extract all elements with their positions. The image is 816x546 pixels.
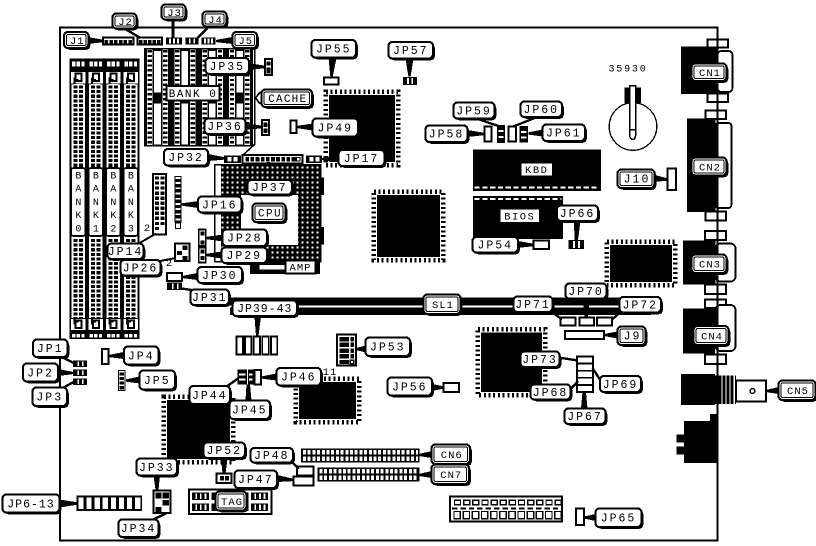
label JP32 bbox=[166, 151, 210, 168]
jumper JP28 bbox=[199, 230, 206, 247]
svg-text:JP34: JP34 bbox=[121, 523, 157, 536]
label J5 bbox=[234, 34, 258, 50]
jumper JP65 bbox=[576, 509, 584, 526]
chip U1 bbox=[326, 92, 398, 165]
svg-text:JP29: JP29 bbox=[226, 250, 262, 263]
label CN5 bbox=[780, 382, 816, 402]
svg-text:JP56: JP56 bbox=[392, 381, 428, 394]
label JP65 bbox=[597, 510, 643, 529]
pointer JP49 bbox=[297, 124, 313, 131]
svg-text:K: K bbox=[75, 211, 81, 222]
label J10 bbox=[619, 171, 656, 190]
pointer JP69 bbox=[593, 368, 602, 382]
label JP46 bbox=[278, 370, 323, 388]
pointer J4 bbox=[198, 27, 210, 39]
svg-text:JP68: JP68 bbox=[533, 387, 569, 400]
pointer JP46 bbox=[262, 374, 277, 381]
pointer JP44 bbox=[226, 379, 238, 388]
svg-text:BANK 0: BANK 0 bbox=[169, 89, 218, 101]
svg-text:JP70: JP70 bbox=[568, 286, 604, 299]
pointer JP16 bbox=[182, 201, 199, 208]
svg-text:JP65: JP65 bbox=[601, 513, 637, 526]
label J1 bbox=[66, 34, 91, 50]
capacitors JP39-43 bbox=[237, 337, 243, 355]
label J3 bbox=[163, 6, 187, 21]
pointer JP5 bbox=[126, 377, 140, 384]
label JP73 bbox=[522, 353, 561, 369]
label JP56 bbox=[389, 379, 434, 397]
CPU PGA socket bbox=[215, 165, 321, 262]
label JP5 bbox=[141, 372, 177, 391]
header J2 pins bbox=[138, 38, 163, 45]
jumper JP61 target bbox=[520, 126, 529, 143]
svg-text:J5: J5 bbox=[238, 36, 253, 48]
label BIOS bbox=[501, 210, 542, 225]
connector CN5 bbox=[681, 374, 715, 405]
jumper JP52 bbox=[217, 474, 232, 484]
svg-text:AMP: AMP bbox=[290, 263, 312, 275]
svg-text:J2: J2 bbox=[118, 17, 133, 29]
pointer JP1 bbox=[59, 356, 74, 364]
svg-text:JP36: JP36 bbox=[207, 121, 243, 134]
jumper JP47 target bbox=[294, 477, 314, 486]
pointer JP60 bbox=[513, 118, 540, 128]
pointer JP52 bbox=[221, 459, 228, 474]
svg-text:CN4: CN4 bbox=[701, 331, 723, 343]
jumper block JP33/34 bbox=[154, 491, 171, 514]
label CN6 bbox=[433, 446, 472, 466]
connector CN3 bbox=[705, 231, 726, 240]
label CN4 bbox=[695, 328, 730, 347]
header JP32 target bbox=[224, 156, 241, 164]
jumpers JP6-13 bbox=[78, 497, 85, 511]
SIMM socket BANK 3 bbox=[123, 60, 139, 339]
label JP31 bbox=[192, 291, 231, 307]
label JP67 bbox=[566, 410, 607, 426]
svg-text:A: A bbox=[110, 185, 116, 196]
DRAM DIP array bank 0 bbox=[144, 48, 253, 147]
svg-text:JP73: JP73 bbox=[522, 354, 558, 367]
svg-text:N: N bbox=[110, 198, 116, 209]
label JP3 bbox=[34, 389, 69, 408]
svg-text:K: K bbox=[128, 211, 134, 222]
pointer JP30 bbox=[183, 273, 198, 280]
pointer CN6 bbox=[420, 451, 432, 458]
pointer JP32 bbox=[208, 154, 225, 161]
pointer JP68 bbox=[570, 381, 579, 391]
motherboard outline bbox=[60, 28, 718, 541]
jumper strip JP16 bbox=[175, 176, 182, 223]
label JP16 bbox=[200, 198, 244, 214]
label TAG bbox=[217, 493, 248, 512]
svg-text:JP44: JP44 bbox=[192, 390, 228, 403]
pointer JP28 bbox=[206, 235, 223, 242]
jumper JP4 bbox=[102, 349, 109, 364]
jumper JP49 bbox=[291, 121, 297, 134]
svg-text:JP69: JP69 bbox=[603, 379, 639, 392]
svg-text:KBD: KBD bbox=[525, 165, 548, 177]
power connector bbox=[450, 497, 562, 522]
pointer JP48 bbox=[290, 460, 299, 470]
svg-text:JP2: JP2 bbox=[27, 367, 54, 380]
pointer JP2 bbox=[58, 369, 73, 376]
svg-text:JP16: JP16 bbox=[202, 199, 238, 212]
jumper block JP26 bbox=[175, 244, 190, 262]
chip U6 bbox=[296, 379, 359, 422]
pointer JP4 bbox=[109, 352, 124, 359]
label JP4 bbox=[126, 348, 161, 366]
svg-text:JP53: JP53 bbox=[370, 342, 406, 355]
label JP71 bbox=[515, 298, 554, 314]
brace for CACHE bbox=[255, 92, 262, 103]
jumper JP60 target bbox=[509, 127, 517, 142]
pointer JP65 bbox=[585, 514, 596, 521]
jumper JP31 bbox=[167, 283, 182, 291]
label JP59 bbox=[455, 104, 496, 120]
connector CN1 bbox=[708, 40, 729, 48]
pointer J2 bbox=[124, 28, 141, 38]
jumper JP56 bbox=[444, 383, 460, 392]
svg-text:N: N bbox=[93, 198, 99, 209]
svg-text:CN7: CN7 bbox=[440, 470, 462, 482]
pointer J10 bbox=[654, 175, 668, 182]
svg-text:JP37: JP37 bbox=[252, 182, 288, 195]
svg-text:JP60: JP60 bbox=[523, 104, 559, 117]
header strip row bbox=[243, 155, 303, 164]
pointer J3 bbox=[172, 19, 175, 38]
svg-text:CN3: CN3 bbox=[699, 260, 721, 272]
SIMM socket BANK 1 bbox=[88, 60, 104, 339]
label JP34 bbox=[120, 521, 160, 539]
jumper block JP44-46 bbox=[238, 370, 248, 385]
label JP69 bbox=[602, 378, 643, 394]
pointer JP47 bbox=[277, 475, 294, 482]
chip U4 bbox=[478, 329, 545, 395]
label JP70 bbox=[567, 285, 608, 300]
label CN7 bbox=[433, 466, 471, 486]
svg-text:JP55: JP55 bbox=[316, 44, 352, 57]
header J3 pins bbox=[166, 38, 182, 45]
svg-text:35930: 35930 bbox=[608, 65, 647, 76]
jumper J10 target bbox=[668, 169, 677, 191]
label CN3 bbox=[693, 256, 728, 275]
jumper JP48 target bbox=[297, 467, 314, 476]
jumper JP36 bbox=[262, 120, 269, 135]
pointer JP29 bbox=[206, 252, 222, 259]
header J1 pins bbox=[103, 38, 134, 45]
svg-text:3: 3 bbox=[128, 224, 134, 235]
label SL1 bbox=[425, 296, 462, 316]
pointer JP53 bbox=[357, 346, 367, 353]
jumper JP5 bbox=[119, 371, 126, 391]
label JP61 bbox=[544, 126, 587, 143]
pointer JP35 bbox=[248, 63, 266, 70]
label JP53 bbox=[367, 339, 412, 358]
label KBD bbox=[522, 164, 555, 178]
svg-text:A: A bbox=[75, 185, 81, 196]
svg-text:JP5: JP5 bbox=[144, 375, 171, 388]
connector CN2 bbox=[706, 111, 727, 120]
jumper stack JP67-69/73 bbox=[577, 357, 593, 364]
svg-text:JP6-13: JP6-13 bbox=[7, 498, 54, 511]
svg-text:N: N bbox=[128, 198, 134, 209]
svg-text:CPU: CPU bbox=[258, 209, 282, 221]
jumper JP29 bbox=[199, 248, 206, 263]
jumper JP54 bbox=[534, 241, 550, 250]
label JP57 bbox=[390, 44, 435, 61]
slot SL1 bbox=[230, 298, 651, 306]
pointer JP71 to jumper bbox=[550, 311, 562, 320]
pointer JP45 bbox=[246, 385, 252, 401]
svg-text:JP66: JP66 bbox=[560, 208, 596, 221]
svg-text:JP31: JP31 bbox=[192, 292, 228, 305]
svg-text:2: 2 bbox=[166, 258, 172, 270]
pointer JP3 bbox=[60, 382, 74, 390]
svg-text:B: B bbox=[128, 172, 134, 183]
svg-text:JP54: JP54 bbox=[477, 240, 513, 253]
header JP17 target bbox=[306, 156, 322, 164]
svg-text:JP49: JP49 bbox=[317, 122, 353, 135]
label JP37 bbox=[249, 182, 293, 197]
socket tab upper bbox=[319, 178, 325, 196]
pointer JP61 bbox=[529, 130, 543, 137]
pointer JP17 bbox=[322, 155, 339, 162]
chip U3 bbox=[607, 242, 675, 285]
pointer JP14 bbox=[138, 234, 156, 245]
svg-text:1: 1 bbox=[93, 224, 99, 235]
connector CN6 bbox=[301, 449, 420, 463]
svg-text:K: K bbox=[93, 211, 99, 222]
svg-text:JP3: JP3 bbox=[36, 392, 63, 405]
pointer J9 bbox=[605, 332, 618, 339]
svg-text:J9: J9 bbox=[624, 331, 642, 344]
label JP72 bbox=[621, 299, 663, 315]
jumper JP59 target bbox=[497, 125, 505, 143]
label JP28 bbox=[224, 231, 268, 248]
label JP68 bbox=[532, 386, 572, 401]
pointer JP67 bbox=[581, 392, 588, 409]
svg-text:JP26: JP26 bbox=[123, 263, 159, 276]
pointer JP31 bbox=[181, 289, 195, 291]
KBD ROM chip bbox=[473, 150, 601, 192]
svg-text:JP45: JP45 bbox=[232, 405, 268, 418]
label JP45 bbox=[231, 402, 271, 421]
pointer JP39-43 bbox=[255, 317, 262, 337]
svg-text:A: A bbox=[93, 185, 99, 196]
battery bbox=[609, 103, 657, 151]
svg-text:JP71: JP71 bbox=[515, 299, 551, 312]
header J5 pins bbox=[202, 38, 216, 45]
label JP60 bbox=[522, 103, 564, 119]
jumper JP57 bbox=[403, 77, 417, 85]
svg-text:J1: J1 bbox=[70, 36, 85, 48]
svg-text:JP17: JP17 bbox=[344, 153, 380, 166]
label JP44 bbox=[191, 388, 232, 406]
svg-text:J10: J10 bbox=[624, 174, 651, 187]
label JP30 bbox=[199, 269, 244, 285]
svg-text:JP67: JP67 bbox=[567, 411, 603, 424]
svg-text:JP30: JP30 bbox=[202, 270, 238, 283]
label JP2 bbox=[25, 365, 60, 383]
pointer JP54 bbox=[518, 241, 534, 248]
pointer JP70 bbox=[583, 299, 590, 318]
label JP26 bbox=[122, 262, 162, 278]
jumper JP35 bbox=[265, 59, 272, 75]
svg-text:2: 2 bbox=[144, 223, 150, 235]
svg-text:TAG: TAG bbox=[221, 497, 243, 509]
label JP47 bbox=[236, 472, 278, 490]
label JP55 bbox=[313, 42, 358, 60]
jumper JP30 bbox=[167, 273, 182, 281]
svg-text:CN2: CN2 bbox=[699, 162, 721, 174]
pointer JP33 bbox=[154, 476, 161, 491]
pointer CN5 bbox=[767, 387, 779, 394]
label J9 bbox=[619, 328, 647, 347]
svg-text:J3: J3 bbox=[167, 8, 182, 20]
connector CN7 bbox=[318, 468, 420, 482]
svg-text:K: K bbox=[110, 211, 116, 222]
svg-text:JP61: JP61 bbox=[546, 128, 582, 141]
pointer JP55 bbox=[329, 57, 337, 77]
label JP54 bbox=[474, 239, 520, 255]
label JP52 bbox=[205, 444, 247, 460]
pointer CN7 bbox=[420, 471, 432, 478]
svg-text:JP32: JP32 bbox=[168, 152, 204, 165]
svg-text:B: B bbox=[110, 172, 116, 183]
socket stub to header bbox=[267, 162, 271, 166]
pointer JP58 bbox=[467, 130, 485, 137]
label JP29 bbox=[223, 249, 268, 264]
svg-text:11: 11 bbox=[323, 367, 338, 379]
svg-text:JP33: JP33 bbox=[139, 462, 175, 475]
svg-text:CACHE: CACHE bbox=[268, 94, 307, 106]
pointer JP66 bbox=[574, 221, 581, 240]
label JP66 bbox=[559, 207, 600, 223]
label JP39-43 bbox=[234, 302, 298, 318]
jumpers JP1-JP3 bbox=[73, 361, 87, 368]
jumper JP66 bbox=[569, 240, 585, 249]
pointer JP57 bbox=[406, 59, 414, 77]
label JP48 bbox=[252, 450, 294, 465]
pointer JP36 bbox=[245, 123, 263, 130]
pointer J5 bbox=[216, 37, 233, 44]
SIMM socket BANK 0 bbox=[71, 60, 87, 339]
label JP36 bbox=[206, 120, 247, 136]
svg-text:0: 0 bbox=[75, 224, 81, 235]
label AMP bbox=[287, 262, 317, 275]
TAG RAM socket bbox=[189, 490, 272, 515]
label JP49 bbox=[314, 120, 360, 138]
label CACHE bbox=[263, 91, 314, 109]
BIOS ROM chip bbox=[473, 196, 563, 239]
jumper JP58 target bbox=[485, 127, 492, 142]
svg-text:J4: J4 bbox=[208, 15, 223, 27]
svg-text:B: B bbox=[75, 172, 81, 183]
pointer J1 bbox=[88, 37, 104, 44]
svg-text:JP52: JP52 bbox=[206, 445, 242, 458]
jumper JP55 bbox=[324, 78, 339, 85]
chip U2 bbox=[374, 192, 443, 260]
svg-text:JP48: JP48 bbox=[254, 450, 290, 463]
label JP14 bbox=[109, 245, 145, 260]
AMP connector bar bbox=[250, 261, 320, 274]
svg-text:JP28: JP28 bbox=[227, 233, 263, 246]
socket tab lower bbox=[319, 227, 325, 245]
svg-text:JP47: JP47 bbox=[238, 474, 274, 487]
svg-text:JP59: JP59 bbox=[456, 105, 492, 118]
svg-text:JP35: JP35 bbox=[209, 61, 245, 74]
svg-text:JP14: JP14 bbox=[108, 246, 144, 259]
svg-text:N: N bbox=[75, 198, 81, 209]
board right edge bbox=[716, 28, 718, 541]
jumper grid JP53 bbox=[337, 335, 356, 366]
label JP35 bbox=[207, 60, 251, 76]
pointer JP73 bbox=[558, 358, 578, 361]
svg-text:A: A bbox=[128, 185, 134, 196]
audio jack bbox=[684, 414, 717, 463]
label CN2 bbox=[693, 159, 728, 177]
svg-text:SL1: SL1 bbox=[432, 300, 454, 312]
pointer JP34 bbox=[151, 514, 166, 521]
svg-text:CN6: CN6 bbox=[441, 450, 463, 462]
label JP58 bbox=[427, 127, 469, 144]
label JP6-13 bbox=[4, 496, 61, 514]
label JP33 bbox=[138, 460, 179, 477]
label J4 bbox=[204, 13, 228, 28]
jumper J9 target bbox=[565, 331, 604, 339]
jumper strip JP14 bbox=[153, 174, 166, 235]
header J4 pins bbox=[186, 38, 199, 45]
svg-text:JP46: JP46 bbox=[281, 372, 317, 385]
label JP1 bbox=[35, 341, 70, 359]
svg-text:JP39-43: JP39-43 bbox=[237, 303, 292, 316]
svg-text:JP58: JP58 bbox=[429, 129, 465, 142]
svg-text:JP57: JP57 bbox=[393, 45, 429, 58]
svg-text:JP1: JP1 bbox=[37, 343, 64, 356]
jumper row below SL1 bbox=[561, 318, 576, 326]
svg-text:CN1: CN1 bbox=[699, 68, 721, 80]
label JP17 bbox=[340, 152, 386, 168]
connector CN4 bbox=[705, 300, 726, 309]
pointer JP72 to jumper bbox=[612, 312, 621, 320]
pointer JP6-13 bbox=[60, 500, 79, 508]
svg-text:BIOS: BIOS bbox=[504, 211, 535, 223]
svg-text:2: 2 bbox=[110, 224, 116, 235]
SIMM socket BANK 2 bbox=[106, 60, 122, 339]
label J2 bbox=[114, 15, 138, 30]
pointer JP26 bbox=[155, 258, 176, 262]
svg-text:JP4: JP4 bbox=[128, 350, 155, 363]
cache boundary trace bbox=[244, 48, 255, 155]
label BANK 0 bbox=[168, 87, 221, 102]
pointer JP59 bbox=[473, 119, 501, 128]
chip U5 bbox=[164, 397, 233, 462]
svg-text:CN5: CN5 bbox=[787, 386, 809, 398]
pointer JP56 bbox=[432, 384, 444, 391]
svg-text:JP72: JP72 bbox=[622, 300, 658, 313]
label CN1 bbox=[693, 65, 728, 83]
label CPU bbox=[254, 205, 287, 224]
svg-text:B: B bbox=[93, 172, 99, 183]
